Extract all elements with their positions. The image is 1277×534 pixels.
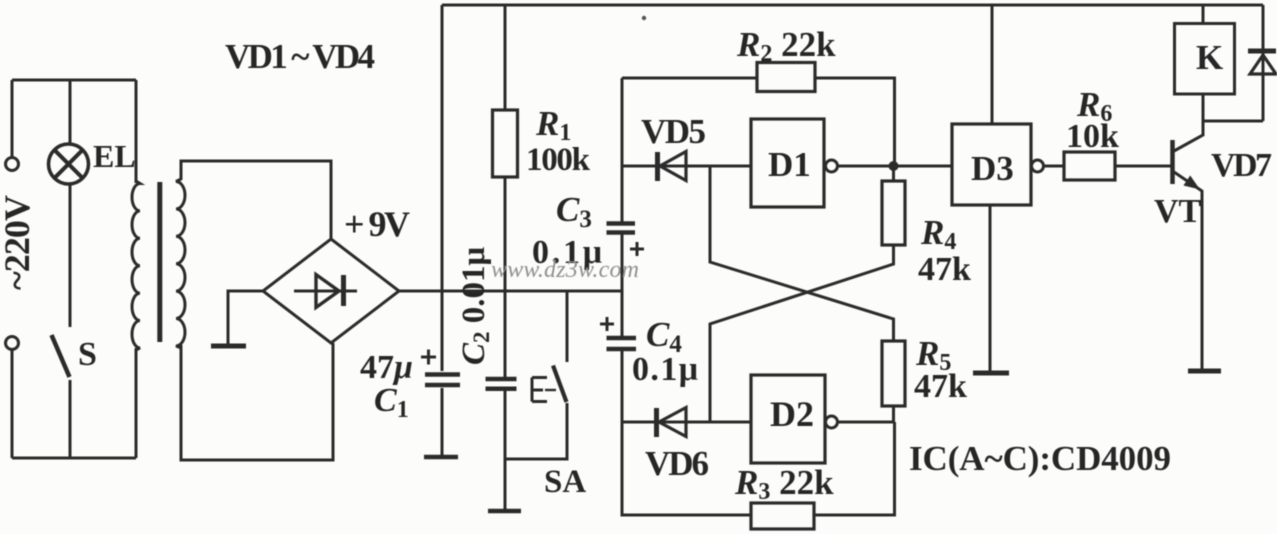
svg-text:C3: C3 [556,190,592,233]
svg-text:D1: D1 [768,145,811,184]
svg-text:S: S [78,336,97,373]
svg-text:D2: D2 [770,394,814,434]
svg-text:~220V: ~220V [0,195,37,290]
svg-text:R4: R4 [920,213,956,255]
svg-text:10k: 10k [1066,118,1119,155]
svg-text:IC(A~C):CD4009: IC(A~C):CD4009 [909,439,1171,478]
svg-text:100k: 100k [526,142,591,178]
svg-text:C1: C1 [374,382,409,423]
svg-text:www.dz3w.com: www.dz3w.com [491,257,639,283]
svg-text:VD6: VD6 [645,444,709,483]
svg-text:+ 9V: + 9V [344,204,410,244]
svg-text:VT: VT [1154,193,1202,230]
svg-text:0.1μ: 0.1μ [632,351,698,388]
svg-text:47k: 47k [918,251,971,288]
svg-text:R2 22k: R2 22k [736,25,836,67]
svg-text:K: K [1196,38,1223,77]
svg-text:SA: SA [544,464,586,500]
svg-text:47μ: 47μ [360,349,413,386]
svg-text:D3: D3 [971,149,1014,188]
svg-text:EL: EL [93,138,136,174]
svg-text:R1: R1 [535,104,571,146]
svg-text:R3 22k: R3 22k [734,463,834,505]
svg-text:VD1 ~ VD4: VD1 ~ VD4 [225,37,375,76]
svg-text:VD5: VD5 [641,112,706,151]
svg-text:VD7: VD7 [1211,147,1272,184]
svg-text:47k: 47k [914,368,967,405]
svg-text:C2 0.01μ: C2 0.01μ [456,246,494,365]
